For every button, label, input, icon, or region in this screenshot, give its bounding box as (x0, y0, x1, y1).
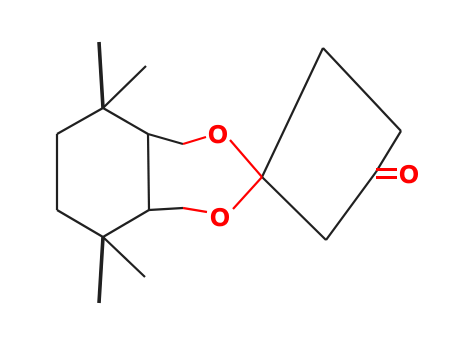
methyl bond M1 (99, 42, 103, 108)
right ring bond C2-E (262, 177, 326, 240)
ring bond H2-H3 (56, 134, 58, 210)
right ring bond B-D (376, 131, 401, 172)
right ring bond C2-A (262, 48, 323, 177)
C=O double bond line 2 (376, 176, 397, 179)
right ring bond A-B (323, 48, 401, 131)
ring bond H6-H1 (103, 108, 148, 134)
bond H5-K2 (149, 208, 183, 210)
C-O bond K2-O3 (183, 208, 207, 212)
C-O bond O1-C2 (230, 140, 262, 177)
methyl bond M2 (103, 66, 146, 108)
C=O double bond line 1 (376, 168, 397, 171)
ring bond H4-H5 (103, 210, 149, 237)
right ring bond E-D (326, 172, 376, 240)
svg-text:O: O (210, 204, 229, 232)
bond H6-K1 (148, 134, 183, 144)
C-O bond O3-C2 (233, 177, 262, 209)
ring bond H5-H6 (148, 134, 149, 210)
svg-text:O: O (208, 121, 227, 149)
C-O bond K1-O1 (183, 137, 206, 144)
ring bond H3-H4 (57, 210, 103, 237)
methyl bond M3 (99, 237, 103, 303)
ring bond H1-H2 (57, 108, 103, 134)
methyl bond M4 (103, 237, 145, 277)
svg-text:O: O (399, 161, 418, 189)
